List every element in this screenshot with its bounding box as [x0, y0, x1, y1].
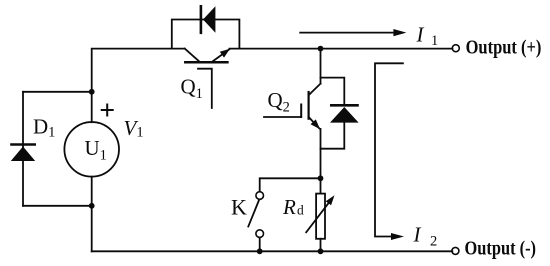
current arrow I2 [391, 233, 404, 240]
svg-text:Output (+): Output (+) [466, 37, 542, 58]
svg-text:d: d [297, 203, 304, 218]
svg-text:2: 2 [430, 233, 437, 249]
wire top rail right segment [230, 48, 453, 50]
node junction dot switch bottom [257, 248, 263, 254]
svg-text:K: K [231, 195, 247, 220]
wire D1 branch top [23, 91, 92, 93]
svg-text:I: I [416, 23, 425, 47]
node junction dot left-top [89, 89, 95, 95]
diode D1 [11, 145, 35, 162]
diode across Q1 [201, 6, 216, 33]
wire top rail left segment [92, 49, 185, 123]
svg-text:Output (-): Output (-) [465, 239, 537, 260]
terminal output plus [452, 45, 459, 52]
wire freewheel diode branch top [321, 78, 345, 105]
svg-text:R: R [282, 195, 296, 219]
current arrow I1 [300, 29, 406, 36]
node junction dot left-bottom [89, 203, 95, 209]
transistor Q1 [185, 49, 230, 108]
resistor Rd [306, 194, 334, 239]
wire Q2 emitter [320, 129, 322, 178]
wire load current path bracket [375, 63, 403, 236]
diode across Q2 [330, 105, 359, 122]
svg-text:I: I [413, 223, 422, 247]
wire switch branch bottom [259, 238, 261, 252]
source U1 [64, 122, 119, 177]
wire Q2 collector [320, 49, 322, 84]
wire Rd branch bottom [320, 239, 322, 252]
wire D1 branch bottom [23, 205, 92, 207]
terminal output minus [452, 247, 459, 254]
wire diode loop over Q1 [172, 20, 240, 49]
plus polarity mark [102, 105, 113, 116]
node junction dot Rd bottom [318, 248, 324, 254]
wire freewheel diode branch bottom [321, 123, 345, 149]
wire bottom rail [92, 250, 453, 252]
switch K [248, 192, 263, 238]
transistor Q2 [264, 84, 321, 130]
node junction dot top rail at Q2 [318, 46, 324, 52]
wire switch branch top [260, 178, 321, 191]
node junction dot emitter [318, 175, 324, 181]
svg-text:1: 1 [431, 33, 438, 49]
wire D1 branch vertical [22, 92, 24, 206]
wire Rd branch top [320, 178, 322, 193]
wire source bottom [91, 177, 93, 252]
